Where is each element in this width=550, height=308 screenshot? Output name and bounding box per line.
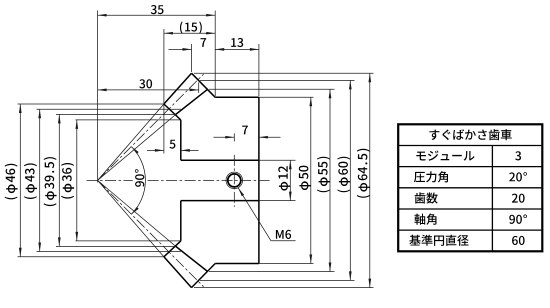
wire extension phi50 top bbox=[259, 96, 314, 98]
table row 基準円直径 bbox=[409, 235, 468, 246]
wire pitch cone centerline upper bbox=[98, 74, 204, 180]
wire root cone line to apex upper bbox=[98, 114, 176, 180]
wire extension phi55 bottom bbox=[209, 271, 335, 273]
dimension 13 bbox=[215, 48, 259, 50]
wire gear shoulder top bbox=[215, 96, 259, 98]
table row 歯数 bbox=[415, 192, 438, 203]
wire gear bore top bbox=[181, 159, 259, 161]
wire extension phi36 bottom bbox=[76, 240, 181, 242]
wire gear hub left face lower bbox=[180, 201, 182, 241]
dimension (φ60) bbox=[349, 80, 351, 280]
dimension 30 bbox=[98, 89, 199, 91]
wire root cone line to apex lower bbox=[98, 180, 176, 246]
table row 軸角 bbox=[414, 214, 436, 225]
dimension (φ36) bbox=[76, 120, 78, 241]
dimension 5 bbox=[147, 149, 164, 151]
wire pitch cone centerline lower bbox=[98, 180, 204, 286]
wire axis centerline left bbox=[87, 179, 133, 181]
leader M6 bbox=[238, 188, 271, 241]
wire gear back-cone face lower bbox=[192, 264, 216, 288]
dimension 35 bbox=[98, 14, 216, 16]
dimension 7 hole offset bbox=[214, 136, 235, 138]
dimension (φ43) bbox=[39, 109, 41, 251]
wire extension phi39.5 top bbox=[56, 113, 176, 115]
dimension φ12 bbox=[289, 160, 291, 200]
dimension (15) bbox=[164, 32, 215, 34]
dimension φ50 bbox=[310, 97, 312, 263]
wire extension phi46 bottom bbox=[18, 256, 164, 258]
wire tip cone line to apex upper bbox=[98, 104, 164, 180]
dimension (φ39.5) bbox=[58, 114, 60, 246]
wire gear tip edge lower bbox=[164, 257, 192, 288]
wire gear hub left face upper bbox=[180, 120, 182, 160]
hole M6 minor circle bbox=[228, 174, 241, 187]
hole M6 thread circle bbox=[226, 172, 243, 189]
dimension (φ64.5) bbox=[369, 73, 371, 287]
wire extension phi60 top bbox=[200, 79, 355, 81]
dimension (φ46) bbox=[19, 104, 21, 257]
wire extension phi39.5 bottom bbox=[56, 245, 176, 247]
wire extension line x191.5 bbox=[191, 44, 193, 72]
wire extension line pitch point bbox=[198, 83, 200, 93]
wire extension phi36 top bbox=[76, 119, 181, 121]
table header sugubakasa-haguruma bbox=[429, 129, 511, 140]
wire extension phi64.5 top bbox=[194, 72, 374, 74]
wire gear right face bbox=[258, 97, 260, 263]
table frame bbox=[398, 124, 542, 251]
wire extension phi12 bottom bbox=[259, 200, 296, 202]
wire extension phi43 bottom bbox=[37, 251, 181, 253]
wire gear tip edge upper bbox=[164, 73, 192, 104]
table row モジュール bbox=[416, 151, 474, 161]
dimension (φ55) bbox=[329, 89, 331, 271]
wire gear back-cone face upper bbox=[192, 73, 216, 97]
wire extension phi64.5 bottom bbox=[194, 287, 374, 289]
wire extension line x163.9 bbox=[163, 29, 165, 154]
wire extension phi50 bottom bbox=[259, 263, 314, 265]
wire extension phi55 top bbox=[209, 88, 335, 90]
wire extension phi60 bottom bbox=[200, 279, 355, 281]
dimension 7 face width bbox=[169, 48, 192, 50]
dimension 90 degree arc bbox=[131, 147, 145, 215]
wire gear front-cone face upper bbox=[164, 104, 181, 120]
wire tip cone line to apex lower bbox=[98, 180, 164, 256]
wire axis centerline right bbox=[148, 179, 272, 181]
wire extension phi43 top bbox=[37, 108, 181, 110]
wire extension line x215.2 bbox=[214, 11, 216, 97]
wire extension phi46 top bbox=[18, 103, 164, 105]
table grid lines bbox=[398, 145, 542, 147]
wire gear shoulder bottom bbox=[215, 263, 259, 265]
wire gear root edge lower bbox=[176, 246, 208, 271]
wire extension line apex vertical bbox=[97, 11, 99, 183]
wire extension line x258.9 top bbox=[258, 44, 260, 96]
wire gear root edge upper bbox=[176, 89, 208, 114]
wire gear bore bottom bbox=[181, 200, 259, 202]
wire gear front-cone face lower bbox=[164, 241, 181, 257]
table row 圧力角 bbox=[414, 171, 448, 182]
wire extension phi12 top bbox=[259, 159, 296, 161]
wire extension line M6 center bbox=[233, 133, 235, 141]
wire M6 hole centerline bbox=[233, 155, 235, 207]
